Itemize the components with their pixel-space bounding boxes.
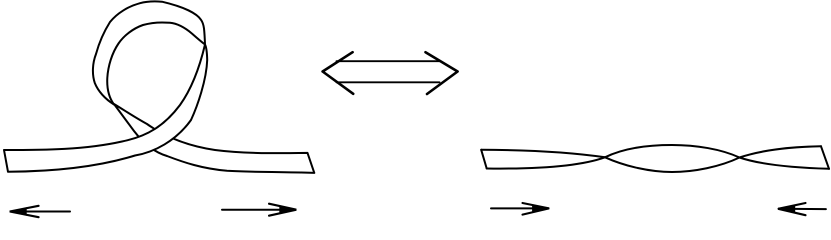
push arrow left-pointing barbs: [778, 203, 805, 215]
ribbon loop outer edge: [93, 1, 205, 104]
ribbon loop inner edge: [107, 22, 205, 104]
pull arrow left barbs: [10, 206, 39, 217]
twisted ribbon left segment bottom edge: [487, 157, 605, 168]
pull arrow right (outward) shaft: [222, 209, 296, 211]
push arrow right-pointing head fill: [532, 204, 549, 213]
push arrow right-pointing (inward) shaft: [491, 207, 549, 209]
pull arrow left head fill: [10, 207, 27, 216]
pull arrow right head fill: [279, 205, 296, 214]
twisted ribbon middle lens bottom edge: [605, 157, 740, 172]
equilibrium arrow left head: [323, 52, 354, 94]
ribbon ascending strand (left end to loop, drawn over): [4, 45, 207, 172]
push arrow left-pointing head fill: [778, 205, 795, 214]
ribbon descending strand (loop to right end, drawn under): [114, 104, 314, 173]
twisted ribbon middle lens top edge: [605, 145, 740, 158]
pull arrow right barbs: [269, 204, 296, 216]
equilibrium double arrow shaft bottom: [337, 81, 440, 83]
equilibrium double arrow shaft top: [337, 60, 440, 62]
twisted ribbon left end cap: [481, 150, 487, 169]
twisted ribbon right segment top edge: [740, 146, 822, 157]
push arrow left-pointing (inward) shaft: [779, 208, 826, 210]
twisted ribbon left segment top edge: [481, 150, 605, 158]
push arrow right-pointing barbs: [523, 203, 550, 215]
pull arrow left (outward) shaft: [11, 211, 71, 213]
twisted ribbon right segment bottom edge: [740, 158, 830, 169]
equilibrium arrow right head: [426, 52, 458, 94]
twisted ribbon right end cap: [821, 146, 829, 169]
